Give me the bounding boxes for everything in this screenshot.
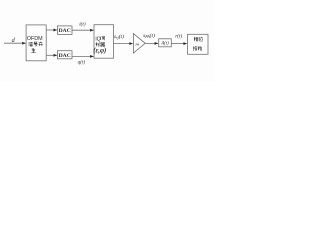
svg-text:i(t): i(t)	[79, 21, 86, 28]
svg-text:q(t): q(t)	[78, 59, 86, 66]
svg-text:DAC: DAC	[59, 53, 71, 59]
svg-text:(ε,φ): (ε,φ)	[93, 48, 106, 55]
svg-text:PA: PA	[134, 42, 140, 46]
svg-text:IQ: IQ	[95, 37, 100, 43]
svg-text:sPA(t): sPA(t)	[143, 32, 155, 39]
svg-text:A(t): A(t)	[160, 41, 169, 46]
svg-text:OFDM: OFDM	[27, 36, 43, 42]
svg-text:srf(t): srf(t)	[114, 33, 124, 40]
svg-text:DAC: DAC	[59, 28, 71, 34]
svg-text:r(t): r(t)	[175, 33, 182, 40]
